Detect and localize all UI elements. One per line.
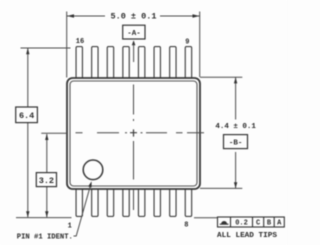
dimension 3.2 : bottom arrowhead	[45, 211, 48, 217]
dimension 3.2 : top arrowhead	[45, 134, 48, 140]
svg-text:ALL LEAD TIPS: ALL LEAD TIPS	[217, 232, 277, 240]
svg-text:PIN #1 IDENT.: PIN #1 IDENT.	[17, 234, 73, 242]
pin 10	[170, 47, 176, 79]
svg-text:16: 16	[76, 38, 84, 46]
pin 6	[154, 188, 160, 216]
dimension 6.4 : bottom extension line	[16, 217, 72, 219]
centerline horizontal	[76, 132, 205, 134]
pin 15	[92, 47, 98, 79]
pin 4	[123, 188, 129, 216]
feature control frame : outer box	[218, 217, 285, 227]
dimension 6.4 : top arrowhead	[26, 48, 29, 54]
svg-text:-A-: -A-	[127, 30, 141, 38]
pin 8	[185, 188, 191, 216]
dimension 3.2 : extension line	[41, 132, 66, 134]
dimension 5.0 ± 0.1 : right extension line	[199, 12, 201, 78]
datum -A- : leader line	[133, 44, 135, 62]
dimension 6.4 : bottom arrowhead	[26, 211, 29, 217]
dimension 3.2 : dimension line lower segment	[46, 187, 48, 218]
dimension 4.4 ± 0.1 : bottom extension line	[200, 187, 242, 189]
feature control frame leader line	[194, 217, 218, 219]
package body inner outline	[70, 81, 197, 186]
dimension 3.2 : dimension line upper segment	[46, 134, 48, 173]
pin 7	[170, 188, 176, 216]
svg-text:3.2: 3.2	[39, 176, 54, 186]
svg-text:0.2: 0.2	[235, 220, 248, 228]
pin 9	[185, 47, 191, 79]
pin 1 ident leader line	[74, 186, 91, 236]
dimension 4.4 ± 0.1 : dimension line upper segment	[235, 77, 237, 119]
dimension 4.4 ± 0.1 : top extension line	[200, 76, 242, 78]
dimension 6.4 : value frame	[16, 107, 38, 123]
pin 1	[76, 188, 82, 216]
svg-text:9: 9	[185, 38, 189, 46]
datum -A- : frame	[123, 25, 145, 39]
centerline vertical	[133, 85, 135, 180]
svg-text:8: 8	[184, 222, 188, 230]
pin 14	[107, 47, 113, 79]
pin 1 indicator circle	[83, 160, 103, 180]
dimension 5.0 ± 0.1 : dimension line left segment	[67, 15, 105, 17]
pin 11	[154, 47, 160, 79]
datum -B- : frame	[224, 135, 248, 149]
package body outer outline	[67, 78, 200, 189]
pin 16	[76, 47, 82, 79]
center cross	[130, 129, 137, 136]
dimension 5.0 ± 0.1 : dimension line right segment	[160, 15, 200, 17]
dimension 4.4 ± 0.1 : bottom arrowhead	[234, 182, 237, 188]
dimension 6.4 : dimension line upper segment	[27, 48, 29, 107]
pin 13	[123, 47, 129, 79]
dimension 5.0 ± 0.1 : right arrowhead	[193, 14, 200, 18]
dimension 3.2 : value frame	[36, 173, 56, 187]
svg-text:6.4: 6.4	[19, 111, 34, 121]
dimension 5.0 ± 0.1 : left arrowhead	[67, 14, 74, 18]
svg-text:1: 1	[68, 223, 72, 231]
feature control frame : cell dividers	[231, 217, 275, 227]
dimension 4.4 ± 0.1 : dimension line lower segment	[235, 152, 237, 188]
dimension 6.4 : dimension line lower segment	[27, 123, 29, 218]
datum -A- : leader arrowhead	[132, 40, 136, 45]
svg-text:5.0 ± 0.1: 5.0 ± 0.1	[111, 12, 157, 22]
pin 5	[138, 188, 144, 216]
feature control frame : profile-of-surface symbol	[221, 221, 227, 224]
pin 3	[107, 188, 113, 216]
dimension 4.4 ± 0.1 : top arrowhead	[234, 77, 237, 83]
centerline vertical bottom stub	[133, 189, 135, 210]
dimension 5.0 ± 0.1 : left extension line	[66, 12, 68, 78]
svg-text:C: C	[256, 220, 260, 228]
pin 2	[92, 188, 98, 216]
dimension 6.4 : top extension line	[21, 47, 71, 49]
pin 12	[138, 47, 144, 79]
svg-text:-B-: -B-	[229, 140, 243, 148]
pin 1 ident leader arrowhead	[88, 181, 91, 187]
svg-text:4.4 ± 0.1: 4.4 ± 0.1	[215, 123, 256, 131]
